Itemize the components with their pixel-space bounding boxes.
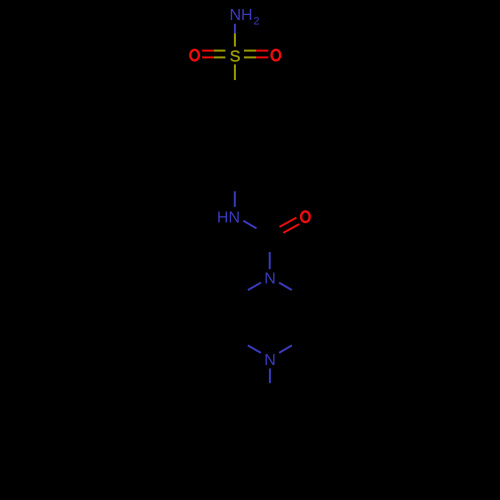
svg-text:N: N	[264, 352, 276, 369]
alkyl chain below N4 (carbon, black invisible)	[235, 398, 270, 478]
bond S-C1 upper half (S colored)	[234, 64, 236, 80]
bond NH2-S lower half (S colored)	[234, 33, 236, 46]
bond C9-N4 N half (blue)	[279, 345, 292, 353]
bond N2-C7 carbon half (black)	[257, 228, 270, 236]
svg-text:NH: NH	[230, 7, 253, 24]
svg-text:HN: HN	[217, 210, 240, 227]
double bond C7=O3 upper line O half (red)	[280, 218, 297, 227]
double bond C7=O3 lower line O half (red)	[283, 224, 299, 233]
bond C4-N2 lower half (N colored)	[234, 191, 236, 207]
double bond S=O left, O half (red)	[202, 51, 214, 58]
bond N4-C12 N half (blue)	[269, 369, 271, 384]
bond N2-C7 N half (blue)	[243, 221, 256, 229]
carbonyl O label	[301, 211, 310, 222]
bond C4-N2 upper half (carbon, black)	[234, 176, 236, 191]
bond C7-N3 N half (blue)	[269, 252, 271, 269]
svg-text:N: N	[264, 270, 276, 287]
bond C10-N4 carbon half (black)	[235, 338, 248, 346]
double bond S=O right, S half (olive)	[244, 51, 256, 58]
bond N3-C11 N half (blue)	[248, 283, 261, 291]
bond C7-N3 carbon half (black)	[269, 236, 271, 252]
double bond C7=O3 lower line carbon half (black)	[271, 233, 283, 239]
svg-text:S: S	[230, 48, 241, 65]
bond NH2-S upper half (N colored)	[234, 24, 236, 34]
right O label of sulfonyl	[272, 50, 281, 61]
double bond C7=O3 upper line carbon half (black)	[268, 227, 280, 233]
benzene ring (carbon, black invisible)	[200, 95, 270, 175]
bond C10-N4 N half (blue)	[248, 345, 261, 353]
bond C9-N4 carbon half (black)	[292, 338, 305, 346]
double bond S=O left, S half (olive)	[214, 51, 225, 58]
left O label of sulfonyl	[190, 50, 199, 61]
piperazine side bonds (carbon, black invisible)	[235, 298, 305, 338]
svg-text:2: 2	[253, 16, 259, 28]
bond N4-C12 carbon half (black)	[269, 383, 271, 398]
bond N3-C8 N half (blue)	[279, 283, 292, 291]
bond S-C1 lower half (carbon, black)	[234, 80, 236, 95]
amine N label NH2 (sulfonamide NH2)	[230, 7, 260, 28]
bond N3-C8 carbon half (black)	[292, 290, 305, 298]
double bond S=O right, O half (red)	[256, 51, 268, 58]
bond N3-C11 carbon half (black)	[235, 290, 248, 298]
